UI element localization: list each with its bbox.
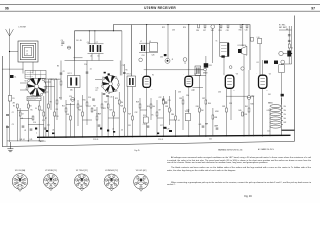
capacitor C12a sym [123, 73, 126, 74]
node bus7 [108, 136, 109, 137]
wire tick i [108, 117, 119, 119]
wire x39 [38, 101, 40, 141]
svg-text:2 7: 2 7 [233, 90, 235, 92]
svg-text:R22: R22 [162, 27, 165, 29]
svg-text:C1: C1 [14, 77, 16, 79]
wire x169 [169, 96, 171, 125]
osc coil box L9 [150, 43, 158, 52]
svg-text:S4: S4 [44, 92, 46, 94]
svg-text:R3: R3 [57, 66, 59, 68]
svg-text:C15: C15 [96, 88, 99, 90]
wire V1 anode feed [146, 25, 148, 77]
dropper feed wire [281, 98, 283, 136]
svg-text:.01: .01 [178, 120, 180, 122]
wire x94 [94, 31, 96, 44]
node HT rect out [291, 53, 292, 54]
svg-text:R33: R33 [165, 106, 168, 108]
resistor R4 [27, 104, 29, 108]
node aerial tap [9, 51, 10, 52]
svg-text:S8: S8 [116, 90, 118, 92]
wire earthy left bottom [7, 140, 44, 142]
wire V4 anode [262, 60, 264, 75]
svg-text:Fig. 45.: Fig. 45. [135, 150, 141, 152]
wire x82 [82, 95, 84, 137]
wire x140 [139, 98, 141, 137]
IF transformer IFT1 [68, 76, 81, 88]
wire T1 primary [219, 26, 221, 43]
svg-text:R41: R41 [245, 106, 248, 108]
svg-text:R5: R5 [31, 110, 33, 112]
svg-text:R5: R5 [126, 70, 128, 72]
loudspeaker [238, 46, 247, 55]
wire x157 [156, 100, 158, 137]
node bus3 [65, 137, 66, 138]
svg-text:I.F.T.1: I.F.T.1 [68, 73, 72, 75]
svg-text:R9: R9 [56, 109, 58, 111]
grid top capacitor C40 [246, 24, 248, 28]
svg-text:R30: R30 [147, 106, 150, 108]
svg-text:R28: R28 [136, 102, 139, 104]
coil L7 bars [141, 45, 145, 51]
wire dropper upper [281, 64, 283, 105]
wire coil L5 tail [91, 54, 93, 61]
socket circle F [139, 58, 143, 62]
coupling box above V2 [195, 66, 201, 75]
svg-text:C10: C10 [84, 64, 87, 66]
wire x226 [225, 89, 227, 137]
capacitor C22 [162, 99, 165, 100]
node bus10 [146, 136, 147, 137]
volume control R29 [143, 117, 148, 123]
wafer switch S5-S8 [101, 75, 119, 92]
node busA b [94, 30, 95, 31]
wire x249 lower [248, 99, 250, 136]
wire HT column upper [288, 26, 290, 51]
svg-text:S7: S7 [102, 77, 104, 79]
svg-text:R26: R26 [183, 27, 186, 29]
svg-text:S15: S15 [252, 96, 255, 98]
resistor R32 [162, 100, 164, 104]
dark comp R24 [204, 63, 209, 67]
node bus11 [163, 136, 164, 137]
svg-text:2M: 2M [121, 102, 124, 104]
capacitor C10 blob [35, 128, 37, 130]
wire x212 [212, 108, 214, 137]
wire x20 [19, 108, 21, 141]
svg-text:V3: V3 [236, 73, 238, 75]
wafer switch S1-S4 (circle with contacts) [26, 76, 47, 96]
wire tick b [20, 118, 33, 120]
trimmer C5 [67, 46, 70, 49]
capacitor C19 blob [107, 130, 109, 132]
svg-text:C43: C43 [267, 110, 270, 112]
svg-text:R16: R16 [196, 30, 199, 32]
svg-text:R34: R34 [171, 114, 174, 116]
capacitor C23 [165, 102, 168, 103]
svg-text:C41: C41 [199, 124, 202, 126]
resistor R25 [118, 100, 120, 104]
node busB b [167, 24, 168, 25]
wire V1 cathode [146, 87, 148, 136]
chassis thick bus [37, 135, 291, 137]
rectifier V5 [279, 51, 291, 57]
svg-text:.002: .002 [93, 110, 96, 112]
capacitor C9 [30, 129, 33, 130]
node busA a [89, 30, 90, 31]
left horizontal wire [2, 68, 23, 70]
svg-text:L9: L9 [149, 41, 151, 43]
capacitor C47 [288, 40, 291, 41]
svg-text:C27: C27 [160, 125, 163, 127]
svg-text:C7: C7 [96, 42, 98, 44]
svg-text:L1: L1 [26, 51, 28, 53]
svg-text:U76RW RECEIVER: U76RW RECEIVER [144, 6, 176, 10]
svg-text:V1 FC4 [8A]: V1 FC4 [8A] [15, 169, 26, 172]
svg-text:FS1: FS1 [268, 94, 271, 96]
valve base V4 [104, 174, 119, 191]
capacitor C29 blob [157, 133, 159, 135]
node earth a [28, 140, 29, 141]
resistor R30 [150, 104, 152, 108]
resistor R41 [248, 108, 250, 112]
wire jack feed [167, 25, 169, 59]
wire tick l [170, 119, 176, 121]
valve V3 [225, 75, 234, 88]
resistor R14 [82, 112, 84, 116]
node bus6 [96, 136, 97, 137]
wire V2 top link [189, 75, 206, 77]
svg-text:1K: 1K [152, 115, 155, 117]
valve base V2 [44, 174, 59, 191]
wire bus B top [113, 25, 250, 70]
wire x119 [118, 92, 120, 137]
svg-text:500: 500 [152, 106, 155, 108]
heavy corner segment lower right [282, 129, 295, 131]
aerial [6, 29, 14, 36]
wire x51 [50, 79, 52, 110]
valve base V3 [74, 174, 89, 191]
resistor R26 [123, 108, 125, 112]
resistor R19 [96, 116, 98, 120]
svg-text:MET. RECT.: MET. RECT. [279, 27, 288, 29]
resistor R37 [205, 100, 207, 104]
svg-text:16MF: 16MF [214, 126, 218, 128]
switch circle S16 [211, 25, 215, 29]
capacitor C3 [6, 127, 9, 128]
resistor R40 [242, 112, 244, 116]
wire IFT1 bottom [74, 88, 76, 138]
resistor R39 [226, 108, 228, 112]
wire x163 [162, 96, 164, 137]
wire coil bottom bar2 [65, 60, 114, 62]
svg-text:MAINS: MAINS [268, 102, 273, 105]
wire x45 [45, 79, 47, 137]
wire x151 [150, 98, 152, 120]
svg-text:L11: L11 [257, 62, 259, 64]
wire rect to anode [283, 53, 287, 55]
wire x97 [96, 107, 98, 137]
wire x87 upper [86, 61, 88, 96]
wire V2 anode feed [188, 25, 190, 77]
svg-text:C34: C34 [186, 95, 189, 97]
svg-text:1M: 1M [41, 110, 44, 112]
valve V2 [185, 76, 193, 86]
resistor R3 [19, 112, 21, 116]
svg-text:L7/D9M: L7/D9M [18, 27, 26, 29]
svg-text:R11: R11 [62, 106, 65, 108]
svg-text:R35: R35 [179, 98, 182, 100]
wire x175 [175, 90, 177, 137]
svg-text:2M: 2M [13, 103, 16, 105]
svg-text:C30: C30 [160, 57, 163, 59]
header bottom rule [0, 10, 320, 12]
header top rule [0, 4, 320, 6]
svg-text:V2: V2 [194, 74, 196, 76]
valve V1 [143, 76, 151, 87]
wire x28 [27, 101, 29, 141]
svg-text:R21: R21 [103, 108, 106, 110]
svg-text:V4 PEN45 [7C]: V4 PEN45 [7C] [105, 170, 118, 172]
padder blob [164, 54, 167, 56]
svg-text:R36: R36 [196, 106, 199, 108]
svg-text:A.C. MAINS 200–250 V.: A.C. MAINS 200–250 V. [258, 148, 275, 151]
svg-text:C24: C24 [142, 55, 145, 57]
resistor R17 [91, 108, 93, 112]
svg-text:C32: C32 [135, 112, 138, 114]
node bus8 [119, 136, 120, 137]
valve base pin digits [13, 174, 148, 190]
svg-text:.02: .02 [24, 130, 26, 132]
resistor R22 [107, 104, 109, 108]
svg-text:R23: R23 [109, 110, 112, 112]
wire tick h [83, 119, 93, 121]
svg-text:C25: C25 [143, 124, 146, 126]
svg-text:200: 200 [284, 118, 287, 120]
svg-text:R42: R42 [284, 122, 287, 124]
svg-text:210: 210 [284, 114, 287, 116]
svg-text:R15: R15 [83, 100, 86, 102]
wire V2 cathode [188, 87, 190, 137]
svg-text:A.C.: A.C. [268, 130, 271, 133]
svg-text:.1: .1 [36, 133, 37, 135]
wire S5 feed [121, 31, 123, 76]
svg-text:14 L.W.: 14 L.W. [76, 40, 82, 42]
svg-text:S2: S2 [30, 94, 32, 96]
svg-text:.05: .05 [121, 130, 123, 132]
wire AVC link [226, 95, 253, 97]
resistor R2 [16, 104, 18, 108]
svg-text:96: 96 [5, 6, 9, 10]
capacitor C11 [44, 128, 47, 129]
svg-text:C9: C9 [63, 71, 65, 73]
wire x113 [113, 96, 115, 137]
resistor R31 [156, 112, 158, 116]
wire coil L6 tail [98, 54, 100, 61]
svg-text:C39: C39 [226, 30, 229, 32]
svg-text:R2: R2 [13, 106, 15, 108]
node busB e [242, 24, 243, 25]
node bus17 [262, 135, 263, 136]
svg-text:C35: C35 [187, 110, 190, 112]
resistor R28 [139, 104, 141, 108]
wire L7 frame bottom [139, 52, 158, 54]
resistor R23 [113, 112, 115, 116]
svg-text:470K: 470K [215, 111, 220, 113]
capacitor C21 blob [113, 131, 115, 133]
lamp circle [281, 60, 285, 64]
wire tick f [44, 91, 49, 93]
svg-text:L6: L6 [98, 56, 100, 58]
node busB c [188, 24, 189, 25]
svg-text:H.T. REC.: H.T. REC. [279, 25, 286, 27]
svg-text:R19: R19 [98, 114, 101, 116]
blob heater a [264, 61, 268, 64]
grid top resistor R16 [198, 24, 200, 28]
switch circle S14 [241, 67, 244, 70]
svg-text:R26: R26 [120, 106, 123, 108]
wire x87 [86, 95, 88, 125]
svg-text:4: 4 [257, 73, 258, 75]
wire x124 upper [123, 64, 125, 92]
svg-text:V5 UU5 [4C]: V5 UU5 [4C] [136, 170, 147, 172]
capacitor C28 blob [169, 130, 172, 132]
wire IFT2 top [130, 25, 132, 76]
svg-text:4: 4 [141, 74, 142, 76]
svg-text:.0001: .0001 [57, 79, 61, 81]
tone circle [183, 58, 187, 62]
svg-text:AVC .01: AVC .01 [40, 140, 46, 143]
svg-text:R18: R18 [219, 30, 222, 32]
svg-text:V1: V1 [152, 74, 154, 76]
svg-text:V2 VP4B [7C]: V2 VP4B [7C] [45, 170, 57, 172]
svg-text:C36: C36 [218, 92, 221, 94]
wire x124 [123, 92, 125, 137]
resistor R6 [38, 106, 40, 110]
wire coil top bar [88, 43, 104, 45]
wire coil mid bar [88, 53, 104, 55]
wire x120 upper [119, 61, 121, 76]
svg-text:R20: R20 [239, 29, 242, 31]
node bus4 [74, 136, 75, 137]
svg-text:R8: R8 [50, 102, 52, 104]
node busA c [113, 30, 114, 31]
resistor R13 [77, 104, 79, 108]
resistor R35 [182, 100, 184, 104]
wire x54 [54, 79, 56, 137]
resistor R43 [288, 44, 290, 48]
wire coil bottom bar1 [74, 57, 83, 59]
wire x102 [101, 92, 103, 137]
switch circle S15 [247, 96, 251, 100]
wire V4 cathode [262, 88, 264, 136]
wire HT link [282, 63, 292, 65]
node bus1 [43, 137, 44, 138]
resistor R10 [56, 100, 58, 104]
wire speaker bottom [243, 55, 245, 136]
svg-text:R25: R25 [115, 98, 118, 100]
bottom border of schematic [2, 141, 294, 146]
socket circle G [204, 68, 207, 71]
jack J1 [165, 58, 170, 63]
valve base V5 [134, 174, 149, 191]
svg-text:C6: C6 [87, 42, 89, 44]
svg-text:C33: C33 [172, 30, 175, 32]
svg-text:R7: R7 [96, 90, 98, 92]
wire HT right [291, 26, 293, 64]
svg-text:T1: T1 [216, 41, 218, 43]
smoothing choke box [279, 65, 284, 73]
svg-text:4: 4 [183, 74, 184, 76]
capacitor C13 blob [52, 133, 55, 135]
wire pickup link [144, 69, 203, 71]
wire frame drop right [32, 62, 34, 74]
trimmer C20 [71, 98, 75, 102]
wire HT column lower [288, 57, 290, 65]
wire x108 [107, 96, 109, 137]
svg-text:R44: R44 [208, 103, 211, 105]
node earth b [39, 140, 40, 141]
capacitor C14 [92, 99, 95, 100]
resistor R38 [212, 115, 214, 119]
svg-text:2 7: 2 7 [266, 90, 268, 92]
grid top resistor R20 [240, 24, 242, 28]
wire x205 [205, 56, 207, 137]
svg-text:.05: .05 [61, 45, 63, 47]
node bus9 [132, 136, 133, 137]
wire IFT2 bottom [127, 87, 129, 137]
svg-text:C12: C12 [42, 120, 45, 122]
svg-text:R7: R7 [45, 118, 47, 120]
svg-text:C14: C14 [88, 97, 91, 99]
svg-text:C4: C4 [61, 40, 63, 42]
resistor R8 [48, 104, 50, 108]
svg-text:R46: R46 [251, 104, 254, 106]
capacitor C1 blob [10, 75, 14, 78]
node bus16 [243, 135, 244, 136]
svg-text:R27: R27 [128, 114, 131, 116]
capacitor C27 blob [164, 127, 167, 129]
wire x132 [131, 87, 133, 137]
svg-text:25K: 25K [66, 114, 70, 116]
svg-text:C31: C31 [128, 125, 131, 127]
node bus12 [175, 136, 176, 137]
capacitor C8 [22, 126, 25, 127]
valve base V1 [12, 174, 28, 192]
socket circle E [229, 66, 232, 69]
svg-text:.01: .01 [21, 118, 23, 120]
svg-text:C28: C28 [167, 128, 170, 130]
wire tick j [140, 109, 147, 111]
wire tick d [44, 81, 51, 83]
resistor R15 [86, 102, 88, 106]
svg-text:C23: C23 [168, 100, 171, 102]
node bus14 [205, 136, 206, 137]
wire x57 [56, 79, 58, 120]
svg-text:465: 465 [70, 90, 73, 92]
coil L4 bars [97, 45, 101, 52]
wire S5 left [95, 79, 102, 81]
svg-text:C2: C2 [12, 112, 14, 114]
wire gram link [199, 69, 205, 71]
capacitor C17 [98, 125, 101, 126]
electrode blob V2b [108, 73, 110, 75]
valve V4 [259, 75, 267, 88]
resistor R2a box [60, 81, 62, 85]
node bus13 [188, 136, 189, 137]
wire tick g [66, 104, 75, 106]
svg-text:R4: R4 [30, 106, 32, 108]
wire x89 [88, 31, 90, 44]
